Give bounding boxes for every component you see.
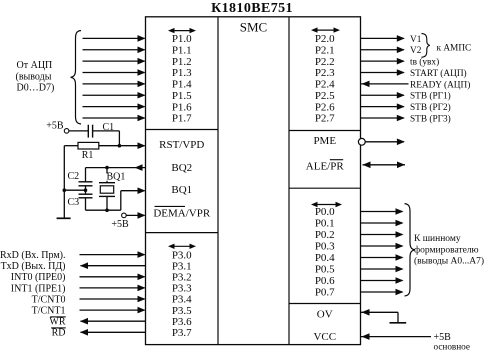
svg-text:D0…D7): D0…D7) <box>17 83 55 94</box>
svg-text:C1: C1 <box>103 122 115 133</box>
svg-text:P0.2: P0.2 <box>315 229 335 241</box>
svg-text:P2.5: P2.5 <box>315 90 335 102</box>
svg-text:От АЦП: От АЦП <box>17 60 53 71</box>
svg-text:P0.1: P0.1 <box>315 218 335 230</box>
svg-text:STB (РГ3): STB (РГ3) <box>410 113 451 124</box>
svg-text:К шинному: К шинному <box>414 234 461 244</box>
svg-text:P0.3: P0.3 <box>315 241 335 253</box>
svg-text:P1.3: P1.3 <box>172 67 192 79</box>
svg-text:BQ2: BQ2 <box>171 162 192 174</box>
svg-text:P1.2: P1.2 <box>172 56 192 68</box>
svg-text:STB (РГ1): STB (РГ1) <box>410 91 451 102</box>
svg-text:RxD (Вх. Прм).: RxD (Вх. Прм). <box>0 250 66 261</box>
svg-text:TxD (Вых. ПД): TxD (Вых. ПД) <box>1 261 66 272</box>
svg-text:RD: RD <box>52 328 66 339</box>
svg-text:(выводы: (выводы <box>16 71 52 82</box>
svg-text:READY (АЦП): READY (АЦП) <box>410 79 470 90</box>
svg-text:P0.4: P0.4 <box>315 252 335 264</box>
svg-text:ALE/PR: ALE/PR <box>306 160 345 172</box>
svg-text:DEMA/VPR: DEMA/VPR <box>153 208 211 220</box>
svg-text:P2.3: P2.3 <box>315 67 335 79</box>
svg-text:BQ1: BQ1 <box>107 171 126 182</box>
svg-text:P2.0: P2.0 <box>315 33 335 45</box>
svg-text:P0.0: P0.0 <box>315 206 335 218</box>
svg-text:OV: OV <box>317 308 333 320</box>
svg-text:+5В: +5В <box>111 219 129 230</box>
svg-text:P1.7: P1.7 <box>172 113 192 125</box>
svg-text:INT0 (ПРЕ0): INT0 (ПРЕ0) <box>11 272 66 283</box>
svg-text:T/CNT1: T/CNT1 <box>32 306 66 317</box>
svg-text:P3.7: P3.7 <box>172 327 192 339</box>
svg-text:BQ1: BQ1 <box>171 184 192 196</box>
svg-text:P2.7: P2.7 <box>315 113 335 125</box>
svg-text:P1.1: P1.1 <box>172 44 192 56</box>
svg-text:WR: WR <box>49 317 65 328</box>
svg-text:P0.5: P0.5 <box>315 264 335 276</box>
svg-text:tв (увх): tв (увх) <box>410 57 439 68</box>
svg-text:P1.5: P1.5 <box>172 90 192 102</box>
svg-text:P1.0: P1.0 <box>172 33 192 45</box>
svg-text:P1.4: P1.4 <box>172 79 192 91</box>
svg-text:основное: основное <box>434 341 470 350</box>
svg-text:C2: C2 <box>68 171 80 182</box>
svg-text:SMC: SMC <box>240 20 267 35</box>
svg-text:RST/VPD: RST/VPD <box>159 139 204 151</box>
svg-text:P2.4: P2.4 <box>315 79 335 91</box>
svg-text:START (АЦП): START (АЦП) <box>410 68 467 79</box>
svg-text:P2.2: P2.2 <box>315 56 335 68</box>
svg-text:(выводы А0...А7): (выводы А0...А7) <box>414 256 484 267</box>
svg-text:P0.7: P0.7 <box>315 287 335 299</box>
svg-text:T/CNT0: T/CNT0 <box>32 294 66 305</box>
svg-text:V2: V2 <box>410 46 422 56</box>
svg-text:PME: PME <box>313 135 336 147</box>
svg-text:формирователю: формирователю <box>414 245 479 256</box>
svg-text:C3: C3 <box>68 197 80 208</box>
svg-text:к АМПС: к АМПС <box>437 44 472 54</box>
svg-text:+5В: +5В <box>46 121 64 132</box>
svg-text:К1810ВЕ751: К1810ВЕ751 <box>211 1 293 16</box>
svg-text:P1.6: P1.6 <box>172 101 192 113</box>
svg-text:P0.6: P0.6 <box>315 275 335 287</box>
svg-text:V1: V1 <box>410 35 422 45</box>
svg-text:P2.6: P2.6 <box>315 101 335 113</box>
svg-text:P2.1: P2.1 <box>315 44 335 56</box>
svg-text:VCC: VCC <box>313 331 336 343</box>
svg-text:STB (РГ2): STB (РГ2) <box>410 102 451 113</box>
svg-text:INT1 (ПРЕ1): INT1 (ПРЕ1) <box>11 283 66 294</box>
svg-text:R1: R1 <box>82 150 94 161</box>
